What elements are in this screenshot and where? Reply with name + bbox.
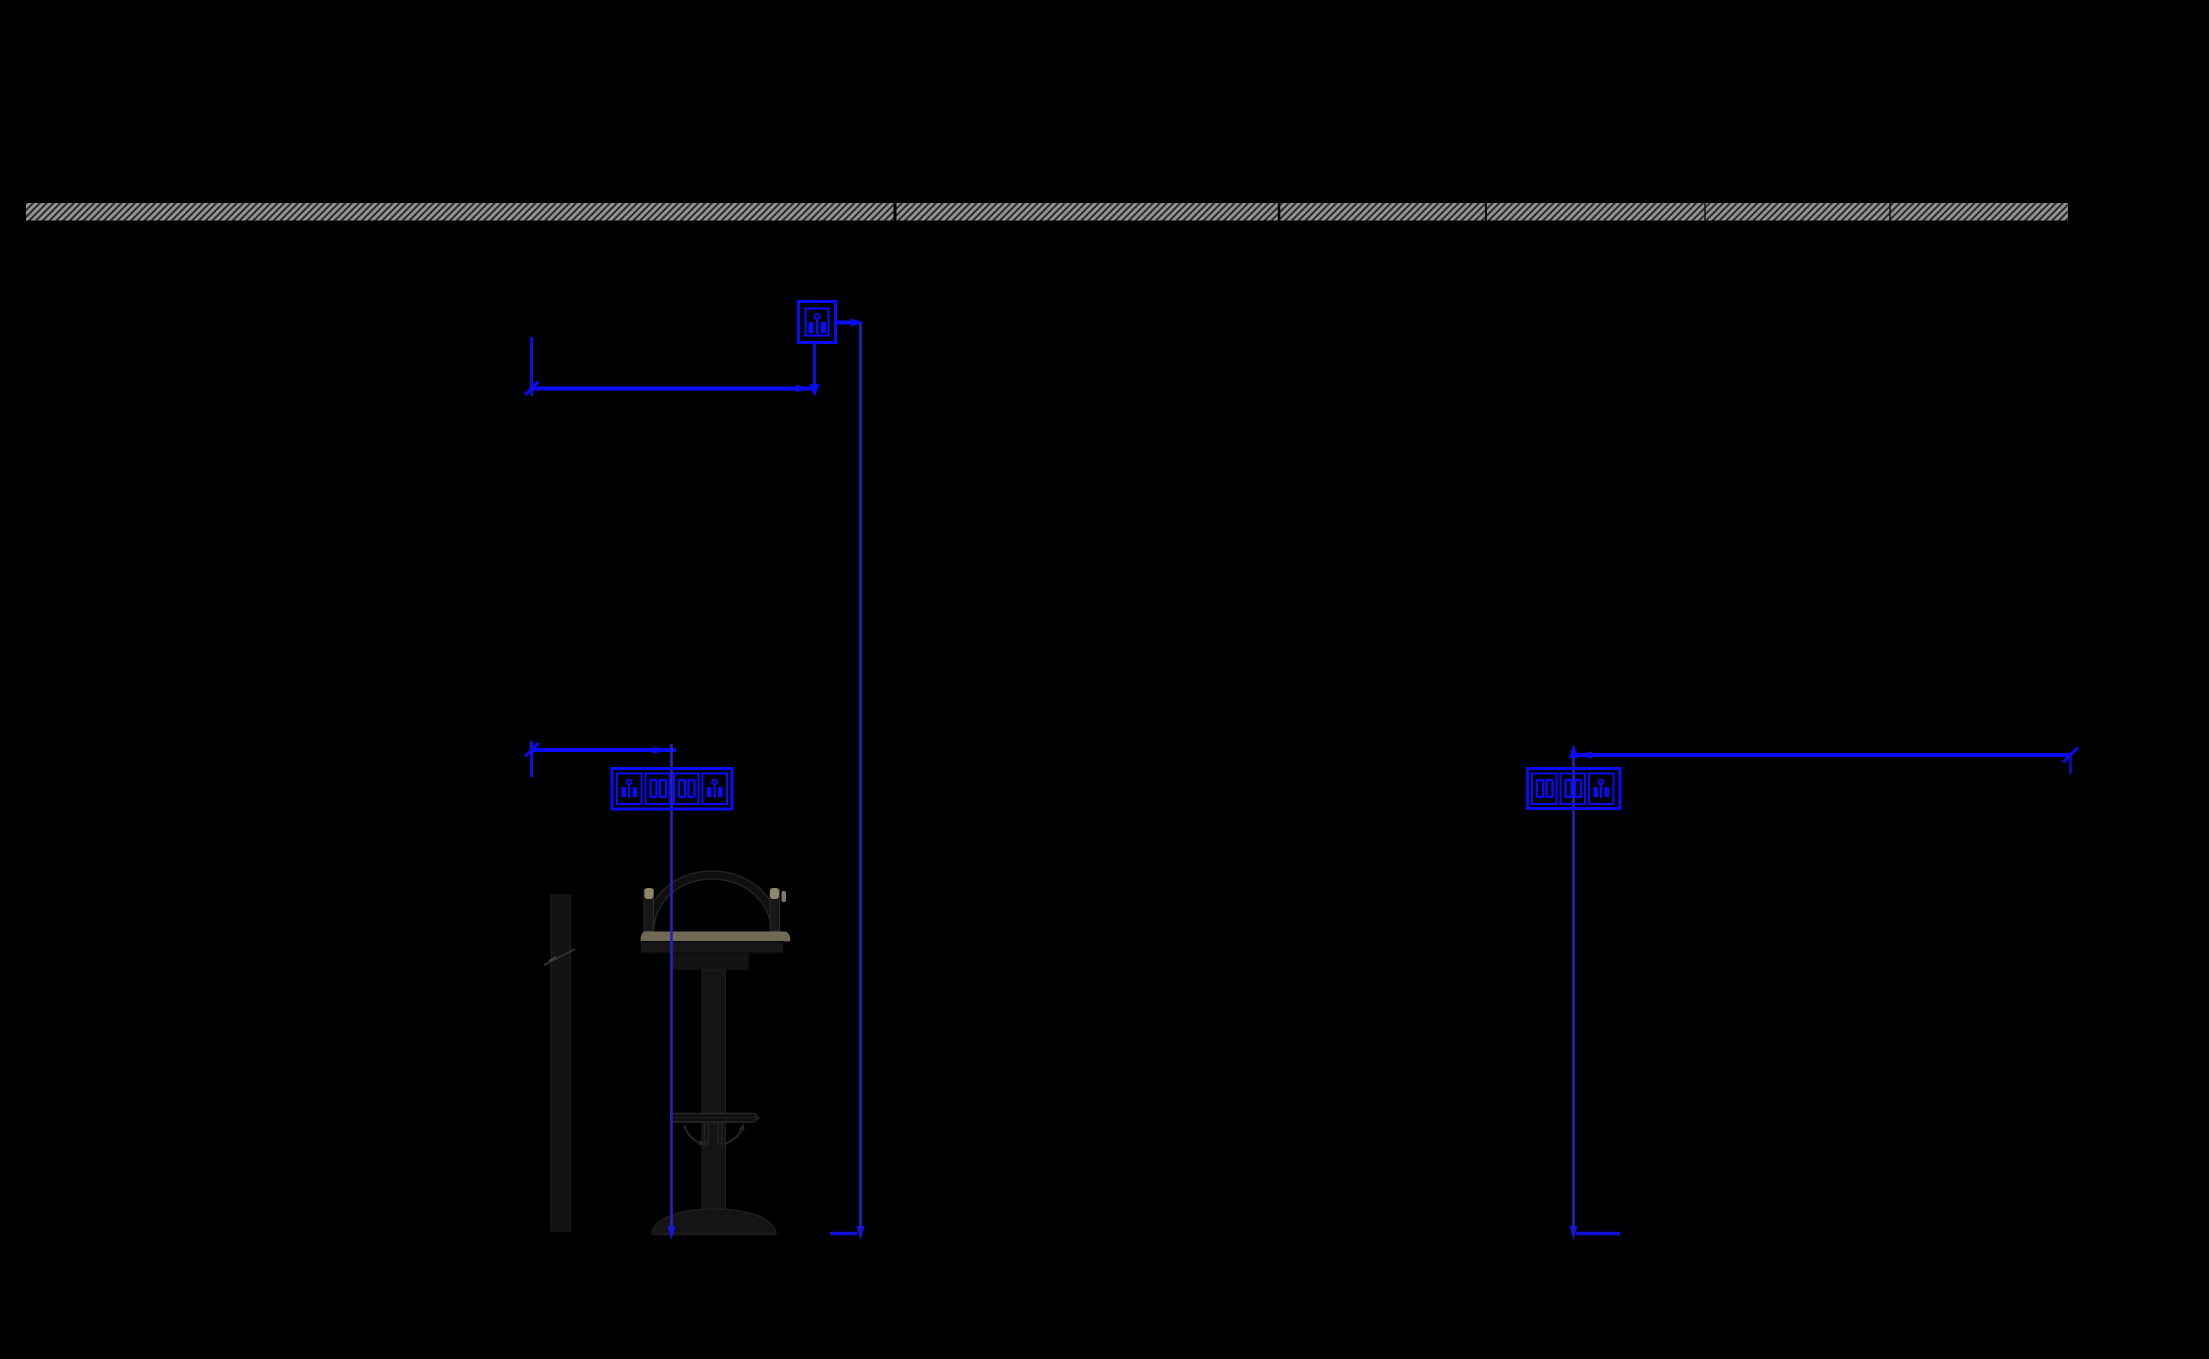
- socket box A (single outlet at top): [799, 302, 836, 343]
- footrest bracket right wall: [718, 1122, 722, 1144]
- right knob: [770, 888, 779, 899]
- footrest bracket left wall: [705, 1122, 709, 1144]
- slab joint lines in hatch band: [894, 203, 897, 221]
- 4-gang icons: double jack in cell3: [679, 780, 695, 797]
- floor tick at line C: [1576, 1232, 1620, 1236]
- horizontal dimension wire to socket A: [532, 387, 813, 391]
- footrest swivel arc right: [724, 1126, 743, 1144]
- height dimension line C (long vertical through 3-gang box): [1572, 747, 1575, 1234]
- seat top edge: [654, 929, 770, 931]
- arrow right at leader end: [851, 319, 864, 327]
- pedestal column: [702, 970, 726, 1212]
- 3-gang socket box: [1528, 769, 1621, 809]
- oblique tick right end: [2063, 748, 2078, 763]
- arrow left end (right dim): [1574, 752, 1593, 759]
- arrow right end: [796, 385, 815, 392]
- 4-gang icons: socket in cell4: [707, 780, 723, 798]
- oblique tick left end: [525, 382, 539, 396]
- leader wire from socket A to height line: [836, 321, 855, 325]
- floor tick at line A: [830, 1232, 857, 1236]
- arrow right end (lower dim): [653, 747, 672, 754]
- backrest arch: [646, 871, 779, 931]
- extension line at x531 (lower): [530, 741, 533, 777]
- backrest left upright: [644, 889, 654, 931]
- arrow down at floor (line A): [857, 1226, 865, 1240]
- height dimension line A (long vertical): [859, 323, 862, 1234]
- arrow down at floor (line C): [1570, 1226, 1578, 1240]
- seat lower band: [641, 942, 784, 954]
- extension drop at right end: [2069, 755, 2072, 774]
- height dimension line B (long vertical through 4-gang box): [670, 744, 673, 1234]
- footrest bar: [671, 1114, 757, 1123]
- arrow down at floor (line B): [668, 1226, 676, 1240]
- ceiling slab hatch band: [26, 203, 2068, 221]
- extension line at x531 (upper): [530, 337, 533, 396]
- horizontal dimension wire to 4-gang box: [532, 748, 677, 752]
- 4-gang socket box: [612, 769, 732, 810]
- footrest bar tip: [755, 1115, 761, 1122]
- arrow down at dim junction: [810, 384, 820, 397]
- 4-gang icons: double jack in cell2: [651, 780, 667, 797]
- 3-gang icons: double jack in cell2: [1566, 780, 1582, 797]
- arrow up at top of line C: [1569, 744, 1578, 758]
- leader wire from socket A bottom: [813, 343, 816, 388]
- backrest right upright: [770, 889, 780, 931]
- 3-gang icons: double jack in cell1: [1537, 780, 1553, 797]
- break mark on post: [544, 949, 575, 965]
- oblique tick left end (lower dim): [525, 743, 539, 757]
- base dome: [652, 1209, 776, 1233]
- left knob: [645, 888, 654, 899]
- bar stool: [641, 871, 791, 1234]
- 3-gang icons: socket in cell3: [1594, 780, 1610, 798]
- seat cushion tan band: [641, 932, 791, 942]
- base plate: [652, 1233, 776, 1236]
- right side tab: [782, 891, 787, 902]
- 4-gang icons: socket in cell1: [622, 780, 638, 798]
- seat mechanism tier: [672, 953, 749, 970]
- wall post (left column section): [544, 895, 575, 1231]
- footrest swivel arc left: [684, 1125, 703, 1144]
- horizontal dimension wire at right group: [1574, 753, 2071, 757]
